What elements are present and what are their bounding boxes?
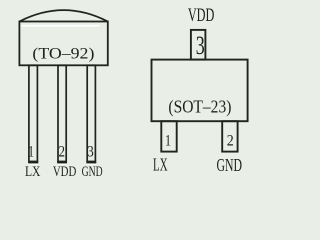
svg-text:2: 2 — [227, 133, 234, 150]
TO-92 package body — [19, 22, 107, 66]
SOT-23 pin number 1 — [165, 133, 171, 150]
TO-92 body highlight line — [22, 25, 100, 27]
svg-text:LX: LX — [153, 154, 168, 174]
SOT-23 net label VDD (pin 3) — [188, 5, 215, 26]
SOT-23 pin number 3 — [196, 31, 205, 60]
SOT-23 label (SOT-23) — [168, 97, 231, 118]
svg-text:GND: GND — [217, 155, 243, 175]
svg-text:(TO–92): (TO–92) — [32, 46, 94, 63]
TO-92 net label LX (pin 1) — [25, 164, 41, 180]
svg-text:1: 1 — [28, 143, 34, 160]
svg-text:2: 2 — [59, 143, 66, 160]
TO-92 lead 2 bottom tip — [57, 162, 67, 165]
svg-text:3: 3 — [87, 143, 94, 160]
svg-text:1: 1 — [165, 133, 171, 150]
TO-92 net label GND (pin 3) — [82, 164, 103, 180]
svg-text:3: 3 — [196, 31, 205, 60]
TO-92 label (TO-92) — [32, 46, 94, 63]
TO-92 net label VDD (pin 2) — [53, 164, 77, 180]
TO-92 body top arc — [19, 10, 107, 21]
SOT-23 pin 2 pad — [222, 121, 237, 151]
svg-text:GND: GND — [82, 164, 103, 180]
SOT-23 pin 3 pad — [191, 30, 206, 60]
TO-92 pin number 1 — [28, 143, 34, 160]
TO-92 pin number 2 — [59, 143, 66, 160]
TO-92 lead 2 — [58, 65, 66, 162]
TO-92 lead 1 bottom tip — [28, 162, 38, 165]
TO-92 lead 3 bottom tip — [86, 162, 96, 165]
SOT-23 pin 1 pad — [161, 121, 176, 151]
SOT-23 net label LX (pin 1) — [153, 154, 168, 174]
svg-text:VDD: VDD — [188, 5, 215, 26]
SOT-23 net label GND (pin 2) — [217, 155, 243, 175]
SOT-23 pin number 2 — [227, 133, 234, 150]
SOT-23 package body — [152, 60, 248, 122]
TO-92 lead 3 — [87, 65, 95, 162]
svg-text:VDD: VDD — [53, 164, 77, 180]
TO-92 pin number 3 — [87, 143, 94, 160]
svg-text:LX: LX — [25, 164, 41, 180]
svg-text:(SOT–23): (SOT–23) — [168, 97, 231, 118]
TO-92 lead 1 — [29, 65, 38, 162]
